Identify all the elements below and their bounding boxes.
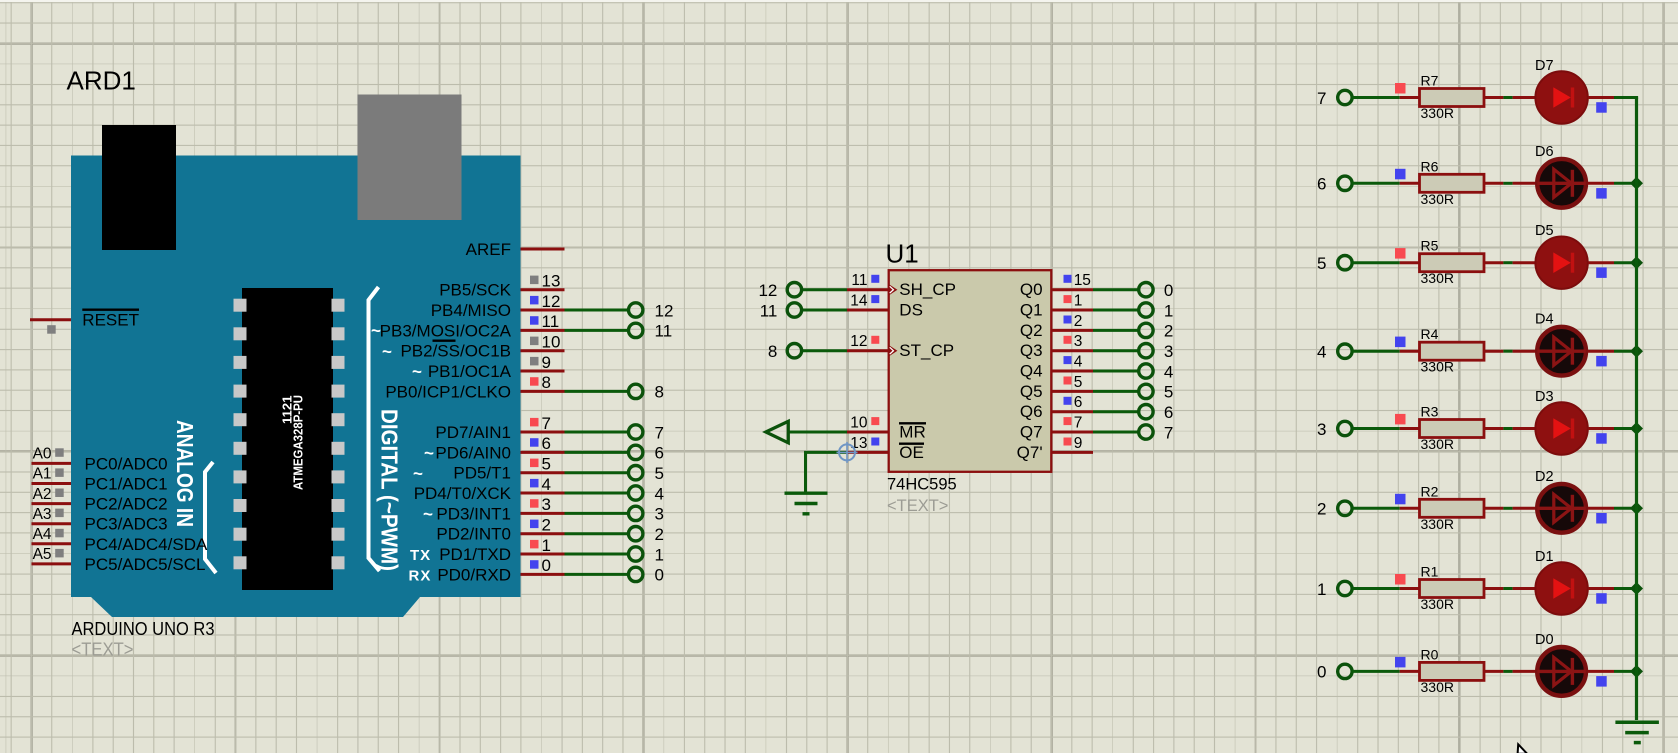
svg-text:PD7/AIN1: PD7/AIN1 xyxy=(435,423,511,442)
pin A3 wire xyxy=(32,522,72,525)
terminal circle 4 xyxy=(629,486,643,500)
pin A0 wire xyxy=(32,462,72,465)
state square 9 xyxy=(530,357,539,366)
U1 state square 4 xyxy=(1064,356,1072,364)
svg-text:A1: A1 xyxy=(33,466,52,483)
U1 state square 6 xyxy=(1064,397,1072,405)
state square 4 xyxy=(530,479,539,488)
U1 output wire 6 xyxy=(1093,410,1139,413)
pin PD2/INT0 wire xyxy=(521,532,565,535)
svg-text:AREF: AREF xyxy=(466,240,511,259)
row 1 wire resistor to led xyxy=(1484,587,1503,590)
row 3 terminal circle xyxy=(1338,421,1352,435)
U1 pin Q7' stub xyxy=(1051,451,1093,454)
pin AREF wire xyxy=(521,248,565,251)
U1 output wire 0 xyxy=(1093,288,1139,291)
svg-text:0: 0 xyxy=(542,556,551,575)
svg-text:PC3/ADC3: PC3/ADC3 xyxy=(85,515,168,534)
svg-text:PB3/MOSI/OC2A: PB3/MOSI/OC2A xyxy=(380,321,512,340)
row 0 state square xyxy=(1395,657,1406,668)
svg-text:PC1/ADC1: PC1/ADC1 xyxy=(85,475,168,494)
row 7 wire resistor to led xyxy=(1484,96,1503,99)
wire to terminal 12 xyxy=(565,309,629,312)
pin A2 wire xyxy=(32,502,72,505)
U1 state square 1 xyxy=(1064,295,1072,303)
U1 input terminal circle 8 xyxy=(787,344,801,358)
resistor R2 xyxy=(1420,499,1485,517)
junction row 5 xyxy=(1630,256,1643,269)
U1 pin Q6 stub xyxy=(1051,410,1093,413)
A1 state square xyxy=(55,468,64,477)
pin PB2/SS/OC1B wire xyxy=(521,349,565,352)
row 5 wire terminal to resistor xyxy=(1352,261,1400,264)
wire to terminal 3 xyxy=(565,512,629,515)
row 4 terminal circle xyxy=(1338,344,1352,358)
svg-text:4: 4 xyxy=(1317,343,1326,362)
svg-text:9: 9 xyxy=(542,353,551,372)
terminal circle 3 xyxy=(629,506,643,520)
svg-text:7: 7 xyxy=(1317,89,1326,108)
terminal circle 5 xyxy=(629,466,643,480)
row 0 wire resistor to led xyxy=(1484,670,1503,673)
atmega328 chip body xyxy=(242,288,333,590)
terminal circle 1 xyxy=(629,547,643,561)
svg-text:6: 6 xyxy=(1164,403,1173,422)
U1 input terminal circle 12 xyxy=(787,283,801,297)
U1 output terminal circle 4 xyxy=(1139,364,1153,378)
resistor R6 xyxy=(1420,174,1485,192)
svg-text:R2: R2 xyxy=(1421,483,1439,499)
svg-text:Q2: Q2 xyxy=(1020,321,1043,340)
svg-text:D4: D4 xyxy=(1535,312,1554,328)
U1 pin MR stub xyxy=(847,431,888,434)
svg-text:11: 11 xyxy=(542,312,560,331)
svg-text:2: 2 xyxy=(655,525,664,544)
row 1 terminal circle xyxy=(1338,581,1352,595)
U1 pin Q7 stub xyxy=(1051,431,1093,434)
svg-text:8: 8 xyxy=(768,342,777,361)
svg-text:12: 12 xyxy=(850,333,867,350)
wire to terminal 7 xyxy=(565,431,629,434)
U1 state square 3 xyxy=(1064,336,1072,344)
row 3 cathode state square xyxy=(1596,433,1607,444)
svg-text:0: 0 xyxy=(1164,281,1173,300)
svg-text:15: 15 xyxy=(1074,272,1091,289)
row 1 wire terminal to resistor xyxy=(1352,587,1400,590)
svg-text:7: 7 xyxy=(542,414,551,433)
U1 output wire 1 xyxy=(1093,309,1139,312)
svg-text:Q4: Q4 xyxy=(1020,362,1043,381)
svg-text:1: 1 xyxy=(655,545,664,564)
svg-text:PD3/INT1: PD3/INT1 xyxy=(436,504,511,523)
terminal circle 2 xyxy=(629,527,643,541)
svg-text:6: 6 xyxy=(542,434,551,453)
U1 input wire 11 xyxy=(802,309,848,312)
wire to terminal 8 xyxy=(565,390,629,393)
svg-text:A3: A3 xyxy=(33,506,52,523)
U1 state square 5 xyxy=(1064,377,1072,385)
pin PB3/MOSI/OC2A wire xyxy=(521,329,565,332)
svg-text:D0: D0 xyxy=(1535,632,1554,648)
resistor R0 xyxy=(1420,662,1485,680)
clock chevron SH_CP xyxy=(889,284,898,295)
svg-text:DS: DS xyxy=(899,301,923,320)
svg-text:PD6/AIN0: PD6/AIN0 xyxy=(435,443,511,462)
resistor R1 xyxy=(1420,580,1485,598)
state square 2 xyxy=(530,520,539,529)
svg-text:PD0/RXD: PD0/RXD xyxy=(437,565,511,584)
svg-text:D3: D3 xyxy=(1535,389,1554,405)
svg-text:D1: D1 xyxy=(1535,549,1554,565)
U1 output terminal circle 2 xyxy=(1139,323,1153,337)
state square 12 xyxy=(530,296,539,305)
svg-text:Q0: Q0 xyxy=(1020,280,1043,299)
svg-text:PB1/OC1A: PB1/OC1A xyxy=(428,362,512,381)
wire to terminal 6 xyxy=(565,451,629,454)
pin RESET wire xyxy=(30,318,71,321)
state square 7 xyxy=(530,418,539,427)
state square 0 xyxy=(530,560,539,569)
svg-text:12: 12 xyxy=(758,281,777,300)
wire to terminal 2 xyxy=(565,532,629,535)
terminal circle 6 xyxy=(629,445,643,459)
U1 state square 15 xyxy=(1064,275,1072,283)
svg-text:7: 7 xyxy=(1074,414,1083,431)
svg-text:11: 11 xyxy=(655,322,673,341)
svg-text:PD1/TXD: PD1/TXD xyxy=(439,545,511,564)
arduino board ARD1 xyxy=(71,156,521,618)
svg-text:ARD1: ARD1 xyxy=(67,66,136,96)
svg-text:A0: A0 xyxy=(33,446,52,463)
junction row 3 xyxy=(1630,422,1643,435)
A4 state square xyxy=(55,529,64,538)
row 7 wire terminal to resistor xyxy=(1352,96,1400,99)
svg-text:7: 7 xyxy=(1164,423,1173,442)
mouse cursor xyxy=(1518,744,1528,753)
pin PD4/T0/XCK wire xyxy=(521,492,565,495)
row 6 wire resistor to led xyxy=(1484,182,1503,185)
power jack xyxy=(102,125,176,250)
ground symbol U1 xyxy=(785,492,828,495)
terminal circle 12 xyxy=(629,303,643,317)
OE wire to ground xyxy=(806,452,848,492)
pin A5 wire xyxy=(32,562,72,565)
svg-text:330R: 330R xyxy=(1421,436,1454,452)
svg-text:OE: OE xyxy=(899,443,924,462)
svg-text:PC5/ADC5/SCL: PC5/ADC5/SCL xyxy=(85,555,206,574)
pin PD7/AIN1 wire xyxy=(521,431,565,434)
svg-text:10: 10 xyxy=(850,414,868,431)
U1 state square 14 xyxy=(871,295,879,303)
svg-text:PC2/ADC2: PC2/ADC2 xyxy=(85,495,168,514)
row 1 wire led to bus xyxy=(1588,587,1614,590)
atmega chip pads xyxy=(234,299,247,312)
U1 pin Q5 stub xyxy=(1051,390,1093,393)
state square 3 xyxy=(530,499,539,508)
ground symbol bus xyxy=(1615,721,1659,725)
svg-text:R4: R4 xyxy=(1421,326,1439,342)
LED D7 xyxy=(1535,71,1587,123)
terminal circle 8 xyxy=(629,384,643,398)
U1 state square 10 xyxy=(871,417,879,425)
U1 output wire 5 xyxy=(1093,390,1139,393)
A2 state square xyxy=(55,489,64,498)
svg-text:Q7': Q7' xyxy=(1017,443,1043,462)
row 5 cathode state square xyxy=(1596,267,1607,278)
svg-text:0: 0 xyxy=(1317,663,1326,682)
pin A1 wire xyxy=(32,482,72,485)
terminal circle 0 xyxy=(629,567,643,581)
row 0 wire led to bus xyxy=(1588,670,1614,673)
svg-text:330R: 330R xyxy=(1421,679,1454,695)
svg-text:A4: A4 xyxy=(33,526,52,543)
svg-text:330R: 330R xyxy=(1421,270,1454,286)
svg-text:D7: D7 xyxy=(1535,58,1554,74)
svg-text:ST_CP: ST_CP xyxy=(899,341,954,360)
svg-text:4: 4 xyxy=(1164,362,1173,381)
svg-text:2: 2 xyxy=(1164,322,1173,341)
svg-text:Q1: Q1 xyxy=(1020,301,1043,320)
svg-text:0: 0 xyxy=(655,566,664,585)
A0 state square xyxy=(55,448,64,457)
svg-text:4: 4 xyxy=(655,484,664,503)
MR input arrow xyxy=(766,421,789,443)
U1 output terminal circle 1 xyxy=(1139,303,1153,317)
svg-text:330R: 330R xyxy=(1421,105,1454,121)
svg-text:4: 4 xyxy=(1074,353,1083,370)
U1 state square 2 xyxy=(1064,316,1072,324)
svg-text:R0: R0 xyxy=(1421,646,1439,662)
svg-text:11: 11 xyxy=(851,272,867,289)
row 3 wire terminal to resistor xyxy=(1352,427,1400,430)
A5 state square xyxy=(55,549,64,558)
pin PB4/MISO wire xyxy=(521,309,565,312)
svg-text:R1: R1 xyxy=(1421,564,1439,580)
LED D6 xyxy=(1537,159,1586,208)
row 0 wire terminal to resistor xyxy=(1352,670,1400,673)
U1 output terminal circle 7 xyxy=(1139,425,1153,439)
resistor R3 xyxy=(1420,420,1485,438)
pin PD0/RXD wire xyxy=(521,573,565,576)
wire to terminal 1 xyxy=(565,553,629,556)
resistor R5 xyxy=(1420,254,1485,272)
clock chevron ST_CP xyxy=(889,345,898,356)
state square 1 xyxy=(530,540,539,549)
junction row 2 xyxy=(1630,502,1643,515)
svg-text:R6: R6 xyxy=(1421,158,1439,174)
svg-text:3: 3 xyxy=(1074,333,1083,350)
MR input arrow wire xyxy=(788,431,847,434)
row 3 wire led to bus xyxy=(1588,427,1614,430)
svg-text:8: 8 xyxy=(655,383,664,402)
pin PD1/TXD wire xyxy=(521,553,565,556)
svg-text:PD4/T0/XCK: PD4/T0/XCK xyxy=(414,484,512,503)
svg-text:6: 6 xyxy=(655,444,664,463)
row 4 wire led to bus xyxy=(1588,350,1614,353)
row 0 terminal circle xyxy=(1338,664,1352,678)
svg-text:11: 11 xyxy=(760,301,778,320)
state square 8 xyxy=(530,377,539,386)
svg-text:DIGITAL (~PWM): DIGITAL (~PWM) xyxy=(377,409,403,571)
A3 state square xyxy=(55,509,64,517)
U1 state square 7 xyxy=(1064,417,1072,425)
row 6 state square xyxy=(1395,169,1406,180)
svg-text:Q5: Q5 xyxy=(1020,382,1043,401)
analog in bracket xyxy=(205,462,216,573)
terminal circle 7 xyxy=(629,425,643,439)
svg-text:9: 9 xyxy=(1074,435,1083,452)
svg-text:1: 1 xyxy=(1164,301,1173,320)
resistor R7 xyxy=(1420,89,1485,107)
row 6 wire led to bus xyxy=(1588,182,1614,185)
U1 output wire 4 xyxy=(1093,370,1139,373)
svg-text:2: 2 xyxy=(542,516,551,535)
svg-text:TX: TX xyxy=(410,547,431,564)
U1 output terminal circle 3 xyxy=(1139,344,1153,358)
svg-text:Q3: Q3 xyxy=(1020,341,1043,360)
U1 pin Q3 stub xyxy=(1051,349,1093,352)
state square 6 xyxy=(530,438,539,447)
state square 5 xyxy=(530,459,539,468)
node marker OE xyxy=(839,444,855,460)
row 7 wire led to bus xyxy=(1588,96,1614,99)
U1 state square 9 xyxy=(1064,438,1072,446)
row 5 terminal circle xyxy=(1338,256,1352,270)
row 3 wire resistor to led xyxy=(1484,427,1503,430)
terminal circle 11 xyxy=(629,323,643,337)
row 3 state square xyxy=(1395,414,1406,425)
svg-text:~: ~ xyxy=(371,321,381,340)
row 7 state square xyxy=(1395,83,1406,94)
svg-text:5: 5 xyxy=(1164,383,1173,402)
svg-text:2: 2 xyxy=(1074,313,1083,330)
svg-text:12: 12 xyxy=(542,292,561,311)
svg-text:1: 1 xyxy=(542,536,551,555)
svg-text:D6: D6 xyxy=(1535,144,1554,160)
svg-text:D2: D2 xyxy=(1535,469,1554,485)
pin PB1/OC1A wire xyxy=(521,370,565,373)
svg-text:14: 14 xyxy=(850,292,868,309)
svg-text:R3: R3 xyxy=(1421,404,1439,420)
row 6 cathode state square xyxy=(1596,188,1607,199)
U1 pin Q0 stub xyxy=(1051,288,1093,291)
U1 output wire 2 xyxy=(1093,329,1139,332)
RESET state square xyxy=(47,325,56,334)
U1 pin Q4 stub xyxy=(1051,370,1093,373)
U1 pin OE stub xyxy=(847,451,888,454)
pin A4 wire xyxy=(32,542,72,545)
LED D2 xyxy=(1537,484,1586,533)
svg-text:10: 10 xyxy=(542,333,561,352)
svg-text:330R: 330R xyxy=(1421,516,1454,532)
pin PD6/AIN0 wire xyxy=(521,451,565,454)
svg-text:A2: A2 xyxy=(33,486,52,503)
MR overline xyxy=(899,422,926,424)
svg-text:13: 13 xyxy=(542,272,561,291)
row 5 wire resistor to led xyxy=(1484,261,1503,264)
LED D1 xyxy=(1535,562,1587,614)
row 4 wire resistor to led xyxy=(1484,350,1503,353)
U1 pin DS stub xyxy=(847,309,888,312)
wire to terminal 4 xyxy=(565,492,629,495)
U1 pin ST_CP stub xyxy=(847,349,888,352)
U1 output wire 7 xyxy=(1093,431,1139,434)
U1 pin Q2 stub xyxy=(1051,329,1093,332)
svg-text:RX: RX xyxy=(409,567,432,584)
svg-text:PB5/SCK: PB5/SCK xyxy=(439,281,511,300)
svg-text:1: 1 xyxy=(1074,292,1083,309)
junction row 6 xyxy=(1630,177,1643,190)
OE overline xyxy=(899,443,924,445)
row 7 terminal circle xyxy=(1338,90,1352,104)
row 6 terminal circle xyxy=(1338,176,1352,190)
junction row 1 xyxy=(1630,582,1643,595)
U1 state square 11 xyxy=(871,275,879,283)
wire to terminal 0 xyxy=(565,573,629,576)
svg-text:330R: 330R xyxy=(1421,596,1454,612)
state square 10 xyxy=(530,337,539,346)
svg-text:3: 3 xyxy=(655,505,664,524)
top edge strip xyxy=(0,0,1678,2)
state square 13 xyxy=(530,276,539,285)
row 4 wire terminal to resistor xyxy=(1352,350,1400,353)
pin PB0/ICP1/CLKO wire xyxy=(521,390,565,393)
digital pwm bracket xyxy=(369,287,380,571)
U1 state square 12 xyxy=(871,336,879,344)
row 5 state square xyxy=(1395,248,1406,259)
svg-text:PB0/ICP1/CLKO: PB0/ICP1/CLKO xyxy=(385,382,511,401)
row 7 cathode state square xyxy=(1596,102,1607,113)
svg-text:PD2/INT0: PD2/INT0 xyxy=(436,525,511,544)
svg-text:6: 6 xyxy=(1074,394,1083,411)
row 2 cathode state square xyxy=(1596,513,1607,524)
row 0 cathode state square xyxy=(1596,676,1607,687)
svg-text:ATMEGA328P-PU: ATMEGA328P-PU xyxy=(291,395,306,490)
LED D3 xyxy=(1535,402,1587,454)
pin PD3/INT1 wire xyxy=(521,512,565,515)
svg-text:U1: U1 xyxy=(886,239,919,269)
svg-text:~: ~ xyxy=(382,342,392,361)
pin PD5/T1 wire xyxy=(521,471,565,474)
U1 chip body 74HC595 xyxy=(889,270,1052,472)
svg-text:5: 5 xyxy=(1317,254,1326,273)
svg-text:Q7: Q7 xyxy=(1020,423,1043,442)
wire to terminal 5 xyxy=(565,471,629,474)
svg-text:6: 6 xyxy=(1317,175,1326,194)
svg-text:7: 7 xyxy=(655,423,664,442)
svg-text:330R: 330R xyxy=(1421,191,1454,207)
row 2 terminal circle xyxy=(1338,501,1352,515)
U1 output terminal circle 5 xyxy=(1139,384,1153,398)
cathode bus wire xyxy=(1635,98,1638,721)
svg-text:<TEXT>: <TEXT> xyxy=(887,497,948,515)
U1 pin Q1 stub xyxy=(1051,309,1093,312)
U1 state square 13 xyxy=(871,438,879,446)
svg-text:~: ~ xyxy=(424,443,434,462)
svg-text:5: 5 xyxy=(1074,374,1083,391)
svg-text:74HC595: 74HC595 xyxy=(887,476,957,494)
row 4 state square xyxy=(1395,337,1406,348)
row 2 wire led to bus xyxy=(1588,507,1614,510)
svg-text:3: 3 xyxy=(1164,342,1173,361)
svg-text:~: ~ xyxy=(423,504,433,523)
row 1 state square xyxy=(1395,574,1406,585)
svg-text:ANALOG IN: ANALOG IN xyxy=(172,420,198,527)
junction row 0 xyxy=(1630,665,1643,678)
svg-text:ARDUINO UNO R3: ARDUINO UNO R3 xyxy=(72,618,215,639)
U1 input wire 8 xyxy=(802,349,848,352)
svg-text:PB4/MISO: PB4/MISO xyxy=(431,301,511,320)
